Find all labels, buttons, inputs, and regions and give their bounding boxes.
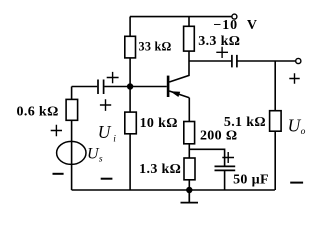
wire 1.3k bottom lead [188,180,190,190]
svg-text:U: U [98,122,112,142]
svg-text:o: o [301,127,306,137]
svg-text:s: s [99,154,103,164]
plus sign C2 [216,47,228,58]
resistor R 3.3k [184,26,195,51]
resistor R 200 [184,122,195,144]
capacitor C2 output plates [232,55,237,68]
plus sign Ui top [100,99,111,111]
ground symbol [181,190,199,203]
junction dot base node [127,83,133,89]
wire output node: collector to Co and to output terminal [189,60,296,62]
resistor R 1.3k [184,158,195,180]
minus sign Ui bottom [101,178,113,180]
plus sign C3 [222,152,234,163]
resistor R 0.6k [66,99,78,120]
capacitor C1 input plates [98,80,104,95]
resistor R 5.1k [270,111,282,132]
source Us circle [57,141,86,164]
wire 0.6k top lead from input corner [71,87,73,100]
svg-text:50 µF: 50 µF [233,172,269,187]
svg-text:5.1 kΩ: 5.1 kΩ [224,115,266,130]
plus sign C1 [107,72,119,83]
resistor R 33k [125,36,136,58]
svg-text:i: i [113,134,116,144]
wire emitter diagonal [169,91,189,98]
svg-text:0.6 kΩ: 0.6 kΩ [17,104,59,119]
resistor R 10k [125,112,137,134]
svg-text:−10 V: −10 V [213,18,258,33]
transistor Q1 emitter arrow [170,91,180,97]
wire emitter to 200 ohm [188,98,190,122]
terminal circle output [296,58,301,63]
wire source column through Us [71,120,73,190]
svg-text:10 kΩ: 10 kΩ [140,116,178,131]
wire input node: cap to base [72,86,167,88]
minus sign Uo bottom [290,182,303,184]
wire 5.1k top lead from output wire [274,61,276,111]
wire 50uF bottom lead [224,170,226,190]
svg-text:33 kΩ: 33 kΩ [138,40,171,54]
wire 5.1k bottom lead to bottom rail [274,131,276,190]
transistor Q1 base bar [167,76,170,97]
svg-text:3.3 kΩ: 3.3 kΩ [198,34,240,49]
wire 10k bottom to bottom rail [129,134,131,190]
wire bypass branch to 50uF [189,149,224,166]
wire top supply rail [130,17,232,37]
capacitor C3 50uF plates [215,166,236,170]
plus sign Us top [51,125,62,137]
wire 200 ohm bottom to 1.3k top [188,144,190,158]
terminal circle -10V [232,14,237,19]
minus sign Us bottom [53,173,64,175]
wire bias column: 33k bottom to 10k top [129,58,131,112]
wire bottom ground rail [72,189,275,191]
svg-text:200 Ω: 200 Ω [200,128,237,143]
junction dot ground node [186,187,192,193]
wire collector column and diagonal [169,51,189,82]
plus sign output terminal [289,73,299,84]
wire 3.3k top lead [188,17,190,27]
svg-text:U: U [288,116,302,136]
svg-text:1.3 kΩ: 1.3 kΩ [139,162,181,177]
